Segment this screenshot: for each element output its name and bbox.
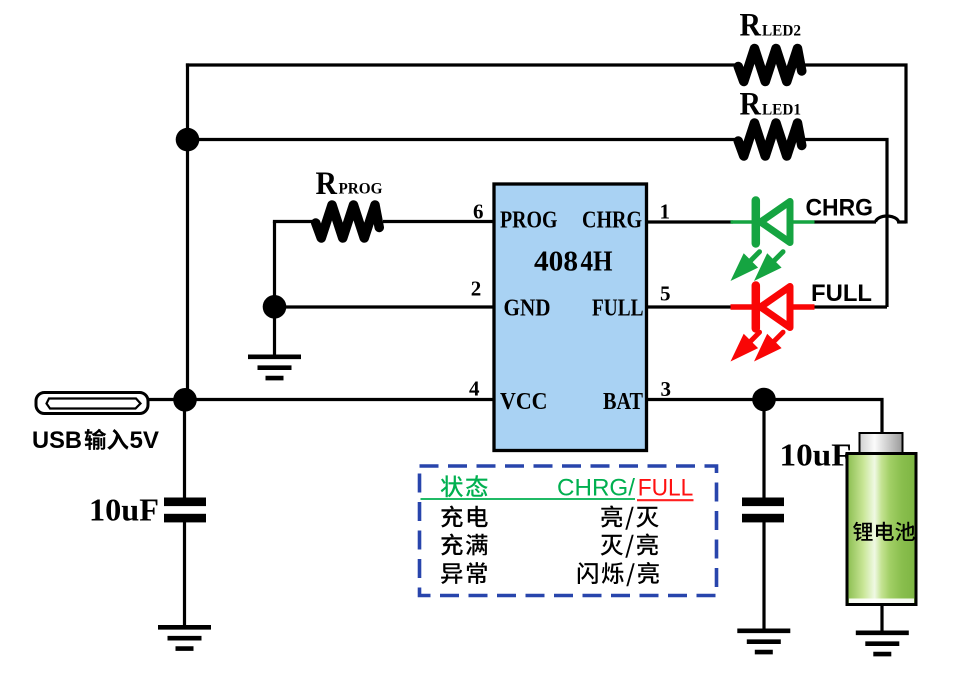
LED D2 emission arrows	[731, 332, 760, 361]
svg-text:R: R	[316, 166, 339, 202]
label RLED2	[740, 8, 802, 44]
svg-text:CHRG: CHRG	[806, 195, 874, 222]
node: junction RPROG/GND	[263, 295, 287, 319]
svg-text:10uF: 10uF	[89, 492, 159, 528]
wire: FULL LED to RLED1 vertical	[814, 305, 887, 308]
wire: top rail to RLED2	[186, 63, 740, 66]
resistor RPROG	[316, 205, 380, 238]
wire: RLED1 rail from junction	[188, 138, 741, 141]
svg-text:FULL: FULL	[811, 280, 872, 307]
wire: right cap branch lower	[762, 521, 765, 631]
svg-text:10uF: 10uF	[780, 437, 852, 473]
wire: RPROG left horizontal	[273, 220, 317, 223]
wire: right cap branch upper	[762, 400, 765, 499]
resistor RLED1	[738, 123, 802, 156]
table row2: charging	[441, 506, 488, 528]
table header underline green	[421, 498, 636, 500]
table row1: status header	[441, 475, 488, 497]
svg-text:USB: USB	[32, 427, 82, 454]
wire: hop bridge over RLED1 vertical	[876, 216, 907, 222]
svg-text:LED2: LED2	[762, 23, 801, 40]
wire: RLED1 right, down to FULL line	[805, 140, 887, 308]
svg-text:5V: 5V	[130, 427, 160, 454]
svg-text:FULL: FULL	[638, 474, 694, 501]
node: junction USB/VCC	[173, 388, 197, 412]
wire: GND junction down to ground	[273, 307, 276, 355]
label RPROG	[316, 166, 383, 202]
table: status legend dashed box	[420, 466, 717, 596]
wire: RPROG to PROG pin 6	[383, 220, 495, 223]
svg-text:1: 1	[660, 200, 671, 224]
wire: USB to VCC pin 4	[148, 398, 495, 401]
ground: RPROG/GND	[248, 357, 301, 378]
label battery	[853, 522, 915, 541]
svg-text:VCC: VCC	[500, 389, 548, 415]
wire: RLED2 right, down to CHRG hop	[805, 65, 906, 224]
svg-text:PROG: PROG	[339, 181, 383, 198]
ground: right cap	[737, 631, 790, 652]
USB connector J1	[36, 393, 148, 414]
label 4084H	[534, 246, 613, 277]
wire: RPROG left vertical	[273, 222, 276, 308]
svg-text:3: 3	[661, 377, 672, 401]
op-amp U1: 4084H charger IC body	[494, 184, 647, 451]
svg-text:CHRG/: CHRG/	[557, 474, 635, 501]
capacitor C2 right 10uF	[742, 498, 784, 523]
LED D1 CHRG green	[731, 201, 815, 244]
svg-text:FULL: FULL	[592, 296, 644, 322]
table row3: full	[441, 534, 487, 556]
svg-text:R: R	[740, 87, 763, 123]
resistor RLED2	[738, 49, 802, 82]
label USB input 5V	[32, 427, 160, 454]
svg-text:4H: 4H	[581, 246, 613, 277]
svg-text:PROG: PROG	[500, 208, 558, 234]
LED D2 FULL red	[731, 286, 815, 329]
svg-text:GND: GND	[504, 296, 551, 322]
table header underline red	[637, 499, 694, 501]
table row4: abnormal	[441, 562, 487, 584]
label RLED1	[740, 87, 802, 123]
svg-text:BAT: BAT	[603, 389, 643, 415]
wire: FULL pin 5 to LED	[645, 305, 734, 308]
wire: left cap branch upper	[183, 399, 186, 498]
wire: CHRG pin 1 to LED	[645, 220, 733, 223]
wire: CHRG LED to hop	[814, 220, 876, 223]
node: junction BAT/cap	[752, 388, 776, 412]
svg-text:CHRG: CHRG	[582, 208, 642, 234]
svg-text:5: 5	[660, 281, 671, 305]
wire: GND pin 2 to junction	[275, 305, 496, 308]
svg-text:LED1: LED1	[762, 102, 801, 119]
svg-text:6: 6	[473, 200, 484, 224]
wire: BAT pin 3 to battery	[645, 400, 882, 435]
wire: battery bottom to ground	[880, 604, 883, 632]
ground: battery	[856, 633, 909, 654]
capacitor C1 left 10uF	[164, 498, 206, 523]
wire: left cap branch lower	[183, 521, 186, 627]
svg-text:R: R	[740, 8, 763, 44]
svg-text:4: 4	[469, 377, 480, 401]
LED D1 emission arrows	[731, 252, 760, 281]
svg-text:2: 2	[471, 277, 482, 301]
wire: left vertical VCC rail	[186, 63, 189, 400]
ground: left cap	[158, 627, 211, 648]
node: junction rail/RLED1	[176, 128, 200, 152]
svg-text:408: 408	[534, 246, 578, 277]
